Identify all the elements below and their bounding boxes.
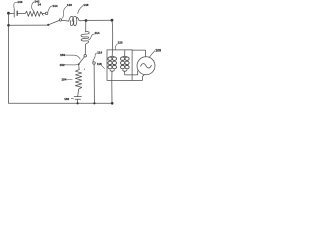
svg-text:118: 118 bbox=[97, 62, 102, 66]
transformer T1 left winding bbox=[110, 55, 112, 58]
leader to label 108 bbox=[149, 51, 155, 58]
switch S1 pivot dot bbox=[47, 24, 49, 26]
transformer T1 right winding bbox=[112, 55, 114, 58]
leader to label 114 bbox=[89, 34, 95, 40]
leader to label 116 bbox=[93, 53, 97, 62]
battery B1 plate short bbox=[16, 11, 18, 15]
node A junction dot top-left bbox=[7, 12, 10, 15]
resistor R2 vertical zigzag bbox=[75, 70, 81, 90]
wire top from node to battery bbox=[9, 12, 15, 14]
leader to label 150 bbox=[64, 55, 80, 59]
battery B1 plate long bbox=[13, 9, 15, 17]
wire AC bottom lead to box corner bbox=[132, 75, 144, 81]
wire bottom rail bbox=[9, 102, 113, 104]
transformer T2 right winding bbox=[125, 55, 127, 58]
leader to label 146 bbox=[63, 6, 67, 18]
svg-text:144: 144 bbox=[53, 4, 58, 8]
wire coil to junction bbox=[81, 20, 85, 22]
leader arrowhead near switch bbox=[42, 14, 44, 16]
switch S2 second contact circle bbox=[93, 62, 96, 65]
leader to label 148 bbox=[78, 6, 83, 14]
inductor L1 horizontal two loops bbox=[69, 16, 74, 25]
wire junction to corner bbox=[86, 19, 112, 21]
inductor L2 vertical loops bbox=[81, 32, 89, 45]
svg-text:162: 162 bbox=[64, 97, 69, 101]
svg-text:154: 154 bbox=[62, 78, 67, 82]
wire into box to transformer T1 bbox=[111, 50, 113, 56]
wire 2 lower horizontal from left rail bbox=[9, 24, 48, 26]
node B junction dot bbox=[85, 19, 88, 22]
svg-text:116: 116 bbox=[97, 50, 102, 54]
wire AC top lead to box corner bbox=[132, 50, 145, 57]
node E junction dot bottom bbox=[93, 102, 95, 104]
wire capacitor to bottom rail bbox=[77, 99, 79, 103]
leader to label 162 bbox=[71, 98, 73, 100]
node D junction dot bottom bbox=[77, 102, 79, 104]
svg-text:114: 114 bbox=[95, 31, 100, 35]
leader to label 154 bbox=[67, 79, 72, 81]
wire battery to resistor bbox=[18, 12, 26, 14]
wire box top to transformer T2 bbox=[124, 50, 126, 56]
tick mark a bbox=[84, 69, 85, 70]
node C junction dot top-right bbox=[111, 19, 114, 22]
switch S1 blade bbox=[48, 20, 59, 24]
wire down from node B bbox=[85, 21, 87, 33]
switch S2 upper contact circle bbox=[84, 54, 87, 57]
svg-text:152: 152 bbox=[60, 63, 65, 67]
svg-text:146: 146 bbox=[67, 3, 72, 7]
svg-text:120: 120 bbox=[118, 41, 123, 45]
node N1 circle bbox=[59, 19, 61, 21]
node F junction dot bottom right bbox=[111, 102, 114, 105]
switch S2 blade bbox=[79, 57, 85, 65]
inductor L1 exit bbox=[77, 18, 81, 21]
leader to label 118 bbox=[101, 65, 104, 68]
leader to label 142 bbox=[32, 2, 35, 11]
switch S2 pivot dot bbox=[78, 63, 80, 65]
box enclosure bbox=[107, 50, 132, 81]
wire T2 bottom lead to AC source bbox=[125, 71, 138, 75]
leader to label 120 bbox=[115, 44, 117, 50]
svg-text:14: 14 bbox=[38, 2, 42, 6]
capacitor C1 top plate bbox=[74, 96, 81, 98]
wire second contact to bottom rail bbox=[93, 64, 95, 103]
wire node to coil bbox=[62, 19, 69, 22]
wire pivot to resistor bbox=[78, 64, 81, 69]
svg-text:148: 148 bbox=[83, 3, 88, 7]
wire resistor to capacitor bbox=[78, 89, 79, 96]
inductor L1 second loop bbox=[72, 16, 77, 26]
wire from node C down to box bbox=[111, 20, 114, 50]
leader to label 152 bbox=[64, 63, 80, 65]
resistor R1 horizontal zigzag bbox=[25, 11, 43, 16]
svg-text:140: 140 bbox=[17, 0, 22, 4]
wire left rail vertical bbox=[8, 13, 10, 103]
leader to label 144 bbox=[48, 6, 52, 12]
wire resistor to switch contact bbox=[43, 12, 45, 14]
capacitor C1 bottom plate bbox=[75, 98, 80, 100]
wire T1 to box bottom and bottom rail bbox=[111, 71, 113, 103]
wire L2 to contact bbox=[84, 45, 86, 55]
svg-text:108: 108 bbox=[155, 49, 161, 53]
svg-text:150: 150 bbox=[60, 53, 65, 57]
transformer T2 left winding bbox=[123, 55, 125, 58]
leader to label 140 bbox=[14, 2, 17, 9]
AC source G1 circle bbox=[137, 57, 155, 75]
switch S1 upper contact circle bbox=[45, 12, 48, 15]
node G junction dot left rail bbox=[7, 24, 10, 27]
AC source sine wave bbox=[141, 64, 152, 68]
